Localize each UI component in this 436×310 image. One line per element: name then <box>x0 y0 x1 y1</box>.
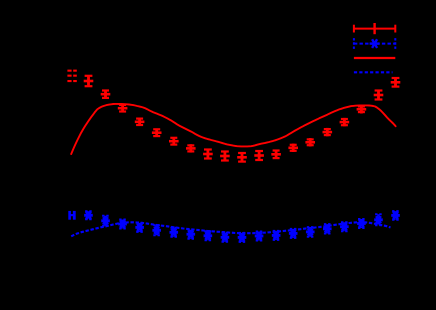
blue data point 19 <box>391 211 400 220</box>
blue data point 8 <box>204 231 213 240</box>
red data point 16 <box>340 118 350 126</box>
red data point 9 <box>220 152 230 161</box>
blue data point 10 <box>238 233 247 242</box>
blue data point 4 <box>135 223 144 232</box>
red fit curve <box>71 104 395 154</box>
blue data point 6 <box>169 228 178 237</box>
blue data point 3 <box>118 220 127 229</box>
blue data point 14 <box>306 227 315 237</box>
red data point 2 <box>101 90 111 98</box>
red data point 13 <box>288 144 298 152</box>
red data point 6 <box>169 137 179 145</box>
blue data point 18 <box>374 214 383 225</box>
blue data point 17 <box>357 219 366 228</box>
red data point 8 <box>203 150 213 159</box>
legend entry 3: red line sample <box>354 57 395 59</box>
blue data point 11 <box>255 232 264 241</box>
blue data point 13 <box>289 229 298 238</box>
red data point 12 <box>271 150 281 158</box>
red data point 5 <box>152 129 162 137</box>
red data point 15 <box>323 128 333 136</box>
legend entry 4: blue dashed line sample <box>354 71 393 73</box>
red data point 4 <box>135 118 145 126</box>
blue data point 0 (clipped) <box>68 211 75 220</box>
red data point 17 <box>357 105 367 113</box>
red data point 19 <box>391 78 401 87</box>
blue data point 9 <box>221 233 230 242</box>
red data point 14 <box>305 138 315 146</box>
red data point 10 <box>237 153 247 162</box>
legend entry 1: red errorbar sample <box>354 23 395 34</box>
blue data point 16 <box>340 222 349 231</box>
red data point 7 <box>186 144 196 152</box>
blue data point 2 <box>101 216 110 226</box>
red data point 1 <box>84 76 94 86</box>
blue data point 12 <box>272 231 281 240</box>
blue data point 5 <box>152 225 161 235</box>
legend entry 2: blue dashed errorbar sample with star <box>354 38 395 49</box>
blue data point 7 <box>187 230 196 239</box>
red data point 0 (dashed caps) <box>67 70 76 83</box>
red data point 18 <box>374 91 384 100</box>
red data point 11 <box>254 151 264 160</box>
blue fit curve (dashed) <box>71 222 390 236</box>
blue data point 15 <box>323 224 332 233</box>
red data point 3 <box>118 104 128 112</box>
blue data point 1 <box>84 211 93 219</box>
